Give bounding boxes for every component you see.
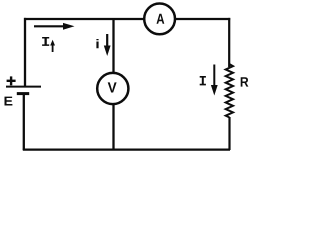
resistor R (vertical zigzag) — [226, 64, 233, 118]
wire right (resistor to bottom corner) — [228, 117, 230, 150]
total current arrow (top wire, pointing right) — [34, 23, 75, 30]
battery value label E — [5, 97, 13, 106]
wire middle branch (voltmeter down to bottom wire) — [112, 105, 114, 150]
branch current arrow (pointing down into voltmeter branch) — [104, 34, 111, 56]
wire bottom — [23, 148, 230, 150]
resistor value label R — [241, 77, 249, 86]
wire middle branch (top wire down to voltmeter) — [112, 18, 114, 73]
resistor current label I (serif) — [200, 76, 206, 85]
branch current label i — [96, 39, 98, 48]
subscript up arrow of I label — [50, 40, 55, 52]
resistor current arrow (pointing down) — [211, 65, 218, 96]
ammeter A — [144, 4, 175, 35]
wire right (top corner down to resistor) — [228, 18, 230, 67]
voltmeter V — [97, 73, 128, 104]
current label I (top, serif) — [42, 37, 49, 46]
wire left (top corner down to battery plate) — [24, 18, 26, 86]
wire left (battery to bottom corner) — [23, 94, 25, 150]
battery E (short negative plate) — [17, 92, 29, 95]
wire top (right segment, ammeter to right corner) — [176, 18, 231, 20]
battery polarity label + — [7, 76, 16, 85]
battery E (long positive plate) — [6, 86, 41, 88]
wire top (left segment, battery + node to ammeter) — [24, 18, 145, 20]
